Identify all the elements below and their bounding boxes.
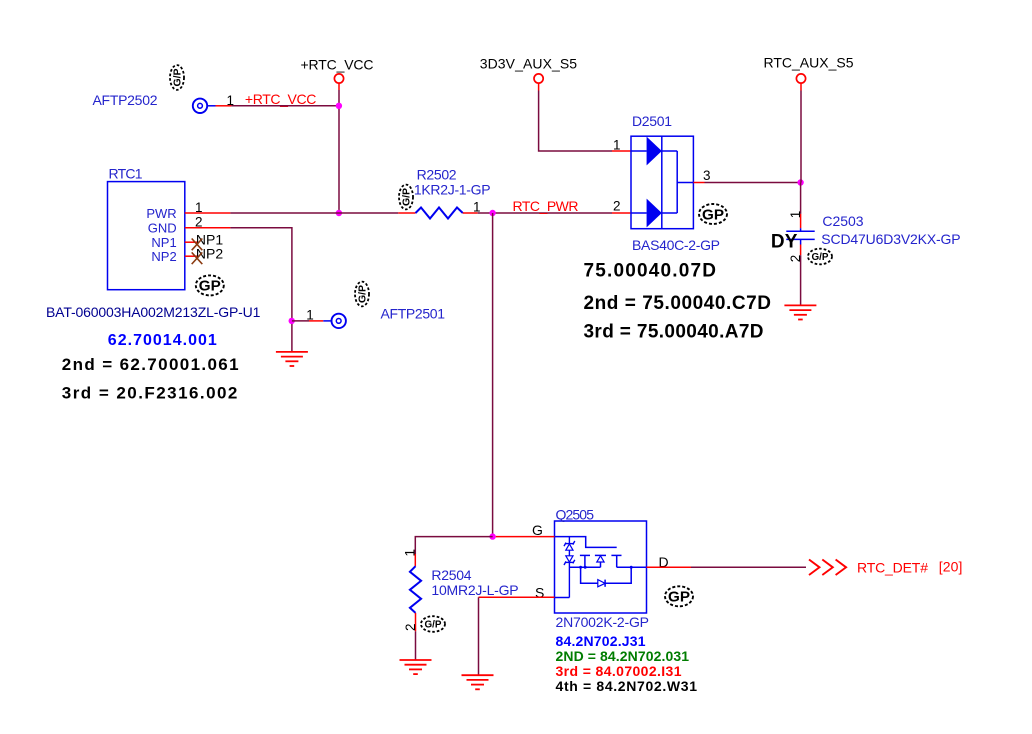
junction dot at GND testpoint [289, 318, 295, 324]
wire node RTC_PWR down to Q2505 gate [492, 213, 494, 537]
wire 3D3V_AUX_S5 to D2501 pin1 [539, 83, 631, 151]
GP stamp (small) at R2504 [421, 616, 445, 632]
svg-text:3rd = 20.F2316.002: 3rd = 20.F2316.002 [62, 384, 238, 403]
power symbol 3D3V_AUX_S5 [480, 56, 578, 84]
Q2505 body diode loop [581, 567, 632, 587]
NP2 pin stub with X [185, 252, 203, 264]
svg-text:D2501: D2501 [632, 113, 672, 129]
svg-text:2N7002K-2-GP: 2N7002K-2-GP [556, 614, 650, 630]
svg-text:C2503: C2503 [822, 213, 863, 229]
resistor R2504 [410, 566, 421, 613]
Q2505 internal junction dots [579, 566, 633, 569]
svg-text:4th = 84.2N702.W31: 4th = 84.2N702.W31 [556, 678, 698, 694]
GP stamp (rotated) near AFTP2502 [170, 65, 184, 90]
testpoint AFTP2501 [332, 314, 346, 328]
svg-text:BAS40C-2-GP: BAS40C-2-GP [632, 237, 720, 253]
Q2505 source line internal [555, 567, 601, 597]
svg-text:2nd = 75.00040.C7D: 2nd = 75.00040.C7D [584, 293, 772, 314]
svg-text:DY: DY [771, 231, 798, 252]
svg-text:3D3V_AUX_S5: 3D3V_AUX_S5 [480, 56, 578, 72]
svg-text:1KR2J-1-GP: 1KR2J-1-GP [414, 181, 491, 197]
svg-text:AFTP2501: AFTP2501 [381, 305, 446, 321]
power symbol RTC_AUX_S5 [764, 55, 854, 84]
Q2505 gate internal [555, 537, 617, 548]
wire R2502 to D2501 pin2 [478, 212, 631, 214]
svg-text:3rd = 75.00040.A7D: 3rd = 75.00040.A7D [584, 322, 764, 343]
Q2505 gate zener chain [564, 537, 575, 598]
wire source to ground [479, 597, 555, 675]
svg-text:RTC_AUX_S5: RTC_AUX_S5 [764, 55, 854, 71]
svg-text:2: 2 [613, 199, 621, 214]
svg-text:62.70014.001: 62.70014.001 [108, 332, 217, 349]
capacitor C2503 lower wire [800, 239, 802, 305]
svg-text:10MR2J-L-GP: 10MR2J-L-GP [431, 582, 518, 598]
battery RTC1 box [108, 182, 185, 290]
capacitor C2503 branch wire upper [800, 183, 802, 232]
diode 1 of D2501 [631, 137, 662, 166]
svg-text:AFTP2502: AFTP2502 [93, 92, 158, 108]
svg-text:3rd = 84.07002.I31: 3rd = 84.07002.I31 [556, 663, 682, 679]
GP stamp at RTC1 [196, 275, 224, 295]
wire drain to off-page [647, 566, 807, 568]
svg-text:R2504: R2504 [431, 567, 471, 583]
svg-text:3: 3 [703, 168, 711, 183]
junction dot on main wire [336, 210, 342, 216]
ground below R2504 [400, 660, 432, 674]
power symbol +RTC_VCC [301, 56, 374, 83]
GP stamp at Q2505 [665, 586, 693, 606]
junction dot node RTC_PWR [489, 210, 495, 216]
svg-text:1: 1 [613, 138, 621, 153]
wire D2501 pin3 to RTC_AUX node [693, 182, 800, 184]
svg-text:R2502: R2502 [417, 166, 457, 182]
svg-text:2: 2 [403, 623, 418, 631]
Q2505 mosfet contacts [580, 555, 647, 567]
mosfet Q2505 box [555, 521, 647, 613]
svg-text:NP2: NP2 [151, 249, 176, 264]
wire RTC_AUX_S5 down to node [800, 83, 802, 182]
svg-text:RTC_PWR: RTC_PWR [513, 198, 579, 214]
capacitor C2503 plates [786, 231, 814, 239]
svg-text:84.2N702.J31: 84.2N702.J31 [556, 633, 646, 649]
D2501 internal midline [661, 136, 663, 229]
GP stamp (rotated) near AFTP2501 [355, 282, 369, 307]
D2501 internal cathode link to pin 3 [662, 151, 694, 213]
svg-text:PWR: PWR [146, 206, 176, 221]
wire junction to testpoint AFTP2501 [292, 320, 332, 322]
svg-text:G: G [532, 522, 543, 538]
NP1 pin stub with X [185, 239, 203, 251]
wire gate node left to R2504 [415, 537, 492, 567]
junction dot at testpoint wire [336, 103, 342, 109]
diode 2 of D2501 [631, 199, 662, 228]
svg-text:1: 1 [403, 549, 418, 557]
wire gate (red stub) [496, 536, 555, 538]
junction dot RTC_AUX node [797, 179, 803, 185]
svg-text:RTC1: RTC1 [109, 166, 143, 182]
wire GND pin to ground/testpoint [185, 228, 292, 352]
svg-text:1: 1 [306, 308, 314, 323]
resistor R2502 [398, 208, 477, 219]
svg-text:NP1: NP1 [151, 235, 176, 250]
GP stamp at D2501 [699, 204, 727, 224]
svg-text:GND: GND [148, 221, 177, 236]
ground below C2503 [784, 305, 816, 319]
svg-text:2nd = 62.70001.061: 2nd = 62.70001.061 [62, 355, 239, 374]
Q2505 body arrow diode [597, 556, 604, 568]
svg-text:Q2505: Q2505 [556, 506, 595, 522]
off-page connector chevrons [809, 560, 846, 576]
svg-text:2: 2 [788, 255, 803, 263]
ground below Q2505 source [462, 675, 494, 689]
GP stamp (small) at C2503 [808, 249, 832, 265]
wire power +RTC_VCC down to main net [338, 83, 340, 213]
svg-text:RTC_DET#: RTC_DET# [857, 560, 928, 576]
svg-text:+RTC_VCC: +RTC_VCC [245, 91, 317, 107]
junction dot at gate node [489, 533, 495, 539]
svg-text:+RTC_VCC: +RTC_VCC [301, 56, 374, 72]
testpoint AFTP2502 [193, 99, 216, 113]
diode D2501 box [631, 136, 693, 229]
svg-text:75.00040.07D: 75.00040.07D [584, 261, 717, 282]
svg-text:SCD47U6D3V2KX-GP: SCD47U6D3V2KX-GP [821, 231, 960, 247]
svg-text:[20]: [20] [939, 559, 963, 575]
wire testpoint AFTP2502 to +RTC_VCC node [216, 105, 339, 107]
svg-text:BAT-060003HA002M213ZL-GP-U1: BAT-060003HA002M213ZL-GP-U1 [46, 304, 261, 320]
ground symbol below RTC1 GND [276, 352, 308, 366]
svg-text:1: 1 [788, 211, 803, 219]
wire R2504 bottom to ground [415, 613, 417, 660]
svg-text:2ND = 84.2N702.031: 2ND = 84.2N702.031 [556, 648, 690, 664]
wire PWR pin to R2502 (main net y213) [185, 212, 398, 214]
GP stamp (rotated) near R2502 [399, 185, 413, 210]
